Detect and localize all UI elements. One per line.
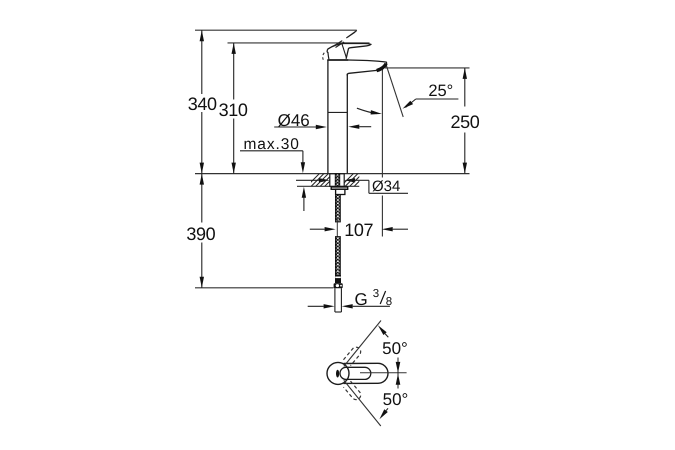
wire counter top line [195, 173, 470, 175]
counter hatching left [306, 173, 338, 187]
dimension 107 [310, 228, 408, 230]
faucet body joint line [328, 111, 347, 113]
svg-text:310: 310 [219, 100, 248, 120]
top view pivot pin [336, 370, 339, 378]
svg-text:8: 8 [386, 296, 392, 308]
faucet body outline [327, 60, 386, 174]
top view ghost lever rotated down [343, 381, 362, 401]
dimension 250 line [464, 68, 466, 174]
dimension 340 line [201, 30, 203, 173]
dimension 25 degrees [406, 99, 459, 108]
svg-text:Ø34: Ø34 [372, 178, 400, 195]
top view lever pivot circle [327, 362, 349, 384]
faucet raised lever mark [333, 41, 342, 47]
flexible hose lower segment [335, 237, 340, 276]
wire top view centerline [360, 372, 407, 374]
svg-text:3: 3 [373, 288, 379, 300]
svg-text:107: 107 [344, 220, 373, 240]
wire 50 degree lower ray [344, 380, 381, 426]
wire 25 degree slant line from spout tip [386, 64, 403, 117]
wire spout tip vertical extension [381, 69, 383, 178]
svg-text:Ø46: Ø46 [278, 111, 310, 130]
wire centerline in hose gap [336, 219, 338, 238]
faucet spout underside [347, 70, 377, 75]
top view lever body [344, 363, 389, 383]
arrow 50 lower [379, 409, 387, 419]
hose connector nut [334, 283, 343, 288]
shank outline [330, 174, 344, 187]
wire counter bottom line [297, 185, 359, 187]
dimension max.30 [240, 151, 304, 211]
dimension 310 line [233, 43, 235, 174]
svg-text:max.30: max.30 [244, 136, 300, 153]
faucet aerator [377, 64, 387, 71]
svg-text:390: 390 [186, 224, 215, 244]
wire extension line top 310 [228, 42, 370, 44]
svg-text:250: 250 [450, 112, 479, 132]
arrow 50 upper [378, 325, 387, 335]
svg-text:50°: 50° [383, 390, 409, 409]
faucet lever swing dashed arc [323, 53, 325, 61]
svg-text:340: 340 [188, 94, 217, 114]
top view lever inner face [340, 367, 371, 379]
top view ghost lever rotated up [343, 345, 362, 365]
connection tube G3/8 [335, 288, 342, 312]
wire extension line spout tip to 250 [385, 67, 470, 69]
dimension G 3/8 [308, 305, 390, 307]
flexible hose upper segment [335, 195, 340, 223]
washer [331, 187, 348, 189]
dimension 390 line [201, 174, 203, 288]
counter hatching right [340, 173, 368, 187]
svg-text:G: G [355, 290, 368, 309]
faucet spout top edge [348, 60, 387, 67]
svg-text:25°: 25° [428, 82, 453, 100]
dimension Ø34 [296, 180, 408, 193]
mounting nut [336, 189, 345, 194]
svg-text:50°: 50° [382, 339, 408, 358]
wire 50 degree upper ray [344, 321, 381, 367]
wire extension line top 340 [195, 29, 357, 31]
shank threaded rod [335, 174, 340, 187]
faucet lever side view [327, 43, 371, 59]
top view angle bowtie arrows [397, 358, 399, 389]
dimension Ø46 [274, 126, 316, 128]
hose ferrule [335, 275, 341, 283]
wire 25 degree arc [357, 108, 377, 113]
wire hose end extension line [195, 287, 334, 289]
